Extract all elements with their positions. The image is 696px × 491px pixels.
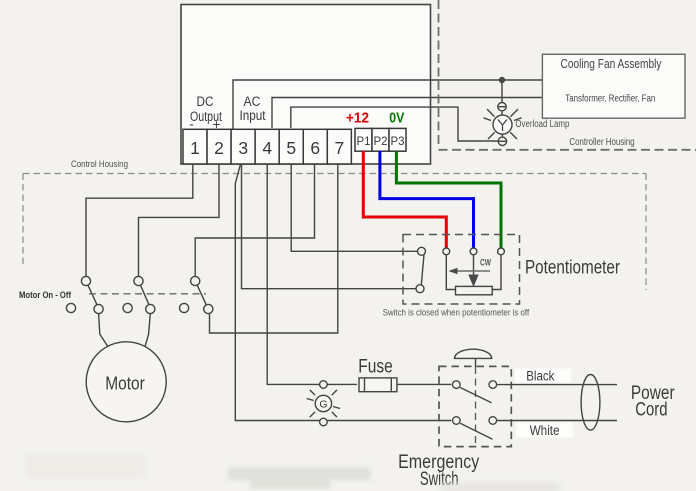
svg-text:-: -: [189, 117, 194, 132]
svg-text:Input: Input: [240, 108, 266, 123]
wire: terminal 5 to overload lamp: [291, 107, 498, 141]
svg-text:6: 6: [310, 138, 320, 158]
P terminal labels: [356, 136, 404, 148]
motor on-off switch S2: [123, 276, 155, 313]
svg-text:G: G: [319, 399, 327, 411]
wire: junction to lamp top: [501, 80, 503, 103]
terminal numbers: [190, 138, 344, 158]
motor on-off switch S1: [66, 276, 103, 313]
wire: terminal 3 to emergency switch (white run): [235, 164, 451, 421]
wire: terminal 4 to cooling fan (line B): [272, 98, 542, 129]
emergency switch dashed box: [439, 366, 511, 446]
wire: black lead to power cord: [497, 384, 617, 386]
svg-text:+12: +12: [346, 110, 369, 127]
cooling fan assembly box: [542, 54, 685, 118]
svg-text:AC: AC: [244, 94, 261, 109]
svg-text:Cord: Cord: [635, 400, 667, 421]
pot interlock switch: [416, 247, 426, 292]
power cord ellipse: [581, 375, 600, 431]
svg-text:Black: Black: [526, 369, 554, 384]
svg-text:Potentiometer: Potentiometer: [525, 258, 621, 279]
mushroom button: [455, 349, 492, 358]
white highlight behind White label: [516, 423, 573, 438]
svg-text:Controller Housing: Controller Housing: [569, 137, 634, 148]
svg-text:7: 7: [335, 138, 345, 158]
wire: P1 to potentiometer (red): [363, 151, 446, 249]
wire: terminal 3 to pot switch lower: [242, 164, 417, 289]
svg-text:2: 2: [214, 138, 224, 158]
svg-text:P3: P3: [390, 136, 404, 148]
svg-text:Motor On - Off: Motor On - Off: [19, 290, 72, 301]
wire: terminal 5 to pot switch upper: [291, 164, 417, 251]
terminal 4: [255, 129, 279, 164]
svg-text:Fuse: Fuse: [358, 357, 393, 378]
junction dot at lamp feed: [499, 77, 505, 83]
svg-text:+: +: [213, 117, 221, 132]
wire: switch 2 to motor: [145, 314, 150, 347]
ground lamp G: [307, 381, 340, 426]
wire: switch 1 to motor: [99, 314, 109, 348]
label AC Input: [240, 94, 266, 123]
svg-text:0V: 0V: [389, 110, 404, 127]
svg-text:Overload Lamp: Overload Lamp: [515, 119, 569, 130]
wire: terminal 6 to motor switch 3: [195, 164, 314, 276]
wire: fuse to emergency switch: [397, 383, 451, 385]
svg-text:3: 3: [238, 138, 248, 158]
CW arrow: [450, 270, 490, 272]
terminal block 1..7: [183, 128, 406, 164]
potentiometer R1: [443, 248, 505, 295]
white highlight behind Black label: [515, 369, 571, 383]
pot body: [456, 286, 493, 294]
svg-text:P2: P2: [373, 136, 387, 148]
motor on-off switch S3: [180, 276, 213, 313]
switch gang dashed link: [89, 293, 206, 295]
svg-text:Switch is closed when potentio: Switch is closed when potentiometer is o…: [383, 308, 530, 319]
wire: P2 to potentiometer (blue): [380, 151, 474, 249]
control housing dashed boundary: [23, 174, 646, 291]
controller housing dashed boundary: [439, 0, 696, 150]
fuse F1: [359, 378, 397, 392]
terminal 7: [327, 129, 351, 164]
wire: white lead to power cord: [497, 420, 617, 422]
terminal P1: [355, 128, 372, 151]
svg-text:Motor: Motor: [105, 373, 145, 393]
svg-text:CW: CW: [480, 258, 491, 268]
potentiometer dashed box: [403, 235, 520, 305]
svg-text:4: 4: [262, 138, 272, 158]
emergency switch pole 2: [453, 417, 497, 440]
controller box U1: [181, 5, 431, 165]
svg-text:Cooling Fan Assembly: Cooling Fan Assembly: [561, 57, 663, 71]
button stem dashed: [475, 358, 477, 367]
wire: terminal 4 to fuse (black run): [267, 164, 357, 384]
svg-text:P1: P1: [356, 136, 370, 148]
motor M1: [86, 342, 166, 422]
svg-text:Tansformer. Rectifier, Fan: Tansformer. Rectifier, Fan: [565, 94, 655, 105]
terminal 2: [207, 129, 231, 164]
terminal P3: [389, 128, 406, 151]
svg-text:Control Housing: Control Housing: [71, 159, 128, 170]
svg-text:DC: DC: [197, 94, 214, 109]
wire: terminal 3 to cooling fan (line A): [233, 80, 542, 129]
overload lamp DS1: [484, 103, 522, 146]
svg-text:White: White: [530, 423, 560, 438]
wire: terminal 7 to motor switch 3 pole: [210, 164, 338, 333]
wire: terminal 2 to motor switch 2: [139, 164, 220, 276]
terminal P2: [372, 128, 389, 151]
svg-text:5: 5: [286, 138, 296, 158]
svg-text:1: 1: [190, 138, 200, 158]
pot right lead: [492, 255, 501, 290]
emergency switch pole 1: [453, 381, 497, 403]
wire: P3 to potentiometer (green): [396, 151, 501, 249]
terminal 1: [183, 129, 207, 164]
terminal 5: [279, 129, 303, 164]
pot left lead: [446, 255, 455, 290]
wire: terminal 1 to motor switch 1: [86, 164, 193, 276]
label DC Output: [189, 94, 222, 132]
terminal 3: [231, 129, 255, 164]
terminal 6: [303, 129, 327, 164]
pot wiper: [473, 255, 475, 276]
